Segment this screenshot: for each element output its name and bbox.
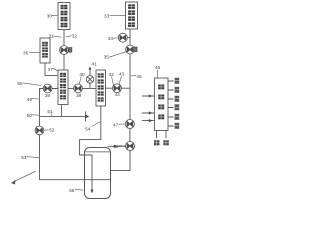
svg-text:44: 44 bbox=[115, 92, 121, 97]
svg-text:45: 45 bbox=[136, 74, 142, 79]
leader left pipe upper bbox=[32, 98, 39, 100]
arrow box F stub 2 bbox=[149, 111, 152, 114]
svg-text:38: 38 bbox=[45, 93, 51, 98]
svg-text:52: 52 bbox=[49, 128, 55, 133]
box E hot water heater bbox=[96, 70, 106, 106]
box F label text blobs bbox=[158, 85, 164, 120]
leader main pipe 45 bbox=[131, 75, 136, 77]
svg-text:32: 32 bbox=[72, 33, 78, 38]
number labels bbox=[17, 13, 160, 192]
wire vent branch with gauge G1 bbox=[89, 69, 91, 89]
leader left pipe low bbox=[27, 157, 39, 158]
svg-text:50: 50 bbox=[27, 113, 33, 118]
svg-text:36: 36 bbox=[23, 51, 29, 56]
wire stub pump B to main pipe bbox=[127, 37, 130, 39]
svg-text:40: 40 bbox=[79, 72, 85, 77]
box F bottom stub labels bbox=[154, 140, 169, 145]
leader lines bbox=[23, 15, 157, 190]
wire cold water branch line bbox=[40, 115, 86, 117]
leader pipe A right bbox=[66, 36, 72, 37]
svg-text:53: 53 bbox=[21, 155, 27, 160]
leader P3 right bbox=[119, 76, 122, 84]
leader left pipe mid bbox=[32, 114, 39, 116]
arrow on branch end bbox=[86, 115, 90, 119]
leader valve VC1 bbox=[118, 123, 125, 125]
wire box F right outlet stubs bbox=[168, 81, 174, 126]
svg-text:42: 42 bbox=[109, 72, 115, 77]
leader box C top bbox=[53, 36, 61, 37]
svg-text:51: 51 bbox=[47, 109, 53, 114]
leader box C left bbox=[29, 51, 40, 53]
valve VC1 on main pipe bbox=[125, 120, 134, 129]
pump P1 left of box D bbox=[43, 84, 52, 93]
leader tank bbox=[92, 122, 100, 127]
svg-text:47: 47 bbox=[113, 123, 119, 128]
wire box E right to main pipe bbox=[106, 87, 131, 89]
box B label text blobs bbox=[128, 4, 135, 27]
wire pipe from box A down to valve V1 and box D bbox=[63, 30, 65, 71]
svg-text:54: 54 bbox=[85, 126, 91, 131]
svg-text:41: 41 bbox=[92, 62, 98, 67]
arrow vent up bbox=[89, 66, 92, 69]
svg-text:55: 55 bbox=[69, 188, 75, 193]
svg-text:56: 56 bbox=[17, 81, 23, 86]
arrow box F stub 3 bbox=[149, 119, 152, 122]
valve VL on left pipe bbox=[35, 126, 44, 135]
box F outlet tiny labels bbox=[175, 78, 180, 129]
svg-text:43: 43 bbox=[119, 71, 125, 76]
svg-text:39: 39 bbox=[76, 93, 82, 98]
leader valve VL bbox=[44, 129, 48, 131]
arrow box F stub 1 bbox=[149, 94, 152, 97]
arrow on tank loop line bbox=[114, 145, 118, 148]
svg-text:34: 34 bbox=[108, 36, 114, 41]
wire pipe from box B down main right pipe bbox=[111, 29, 130, 171]
pump C2 circulation pump bbox=[126, 142, 135, 151]
pump PB beside box B pipe bbox=[118, 33, 127, 42]
wire box E bottom pipe to tank dip tube bbox=[80, 106, 101, 190]
svg-text:48: 48 bbox=[113, 144, 119, 149]
svg-text:33: 33 bbox=[104, 14, 110, 19]
wire box D left to pump P1 and left pipe bbox=[40, 89, 111, 180]
tank inner top line bbox=[85, 151, 110, 153]
leader pump P2 top bbox=[79, 76, 81, 84]
leader box B bbox=[110, 14, 126, 16]
box F hot water distributor bbox=[154, 78, 168, 131]
leader pump C2 bbox=[119, 145, 125, 147]
leader valve V2 bbox=[109, 52, 126, 57]
leader box A bbox=[52, 14, 58, 16]
box D label text blobs bbox=[60, 73, 66, 100]
svg-text:31: 31 bbox=[49, 33, 55, 38]
leader box C bottom bbox=[53, 68, 58, 71]
tank hot water storage bbox=[85, 148, 111, 199]
wire box C bottom L pipe to box D bbox=[45, 63, 58, 76]
pump P3 right of box E bbox=[113, 84, 122, 93]
box C refrigerant unit bbox=[40, 38, 50, 63]
svg-text:30: 30 bbox=[47, 13, 53, 18]
leader box F top bbox=[156, 70, 158, 78]
wire tank top circulation line bbox=[108, 145, 126, 147]
leader far left label bbox=[23, 83, 41, 86]
leader P3 left bbox=[112, 77, 114, 86]
box E label text blobs bbox=[98, 73, 104, 102]
leader branch bbox=[51, 114, 52, 117]
node branch end tick bbox=[84, 111, 86, 121]
figure hatch mark bottom left bbox=[13, 171, 36, 182]
valve V1 on box A pipe bbox=[60, 46, 72, 55]
box D condensing heater bbox=[58, 70, 68, 105]
wire box D bottom leg bbox=[61, 105, 63, 117]
box A condenser unit bbox=[58, 3, 70, 30]
svg-text:35: 35 bbox=[104, 55, 110, 60]
valve V2 motor valve on main pipe bbox=[126, 45, 137, 54]
leader bottom tank bbox=[75, 189, 84, 190]
svg-text:49: 49 bbox=[27, 97, 33, 102]
arrow dip tube down bbox=[90, 190, 93, 194]
svg-text:46: 46 bbox=[155, 65, 161, 70]
leader pump PB bbox=[113, 37, 118, 39]
svg-text:37: 37 bbox=[48, 67, 54, 72]
wire box F bottom stubs bbox=[157, 131, 167, 139]
pump P2 right of box D bbox=[74, 84, 83, 93]
box B heater unit bbox=[126, 2, 138, 29]
box C label text blobs bbox=[42, 42, 48, 58]
wire box D right to box E bbox=[68, 87, 96, 89]
box A label text blobs bbox=[61, 5, 68, 28]
gauge G1 on vent branch bbox=[86, 76, 94, 84]
wire box F left inlet stubs bbox=[142, 96, 155, 121]
